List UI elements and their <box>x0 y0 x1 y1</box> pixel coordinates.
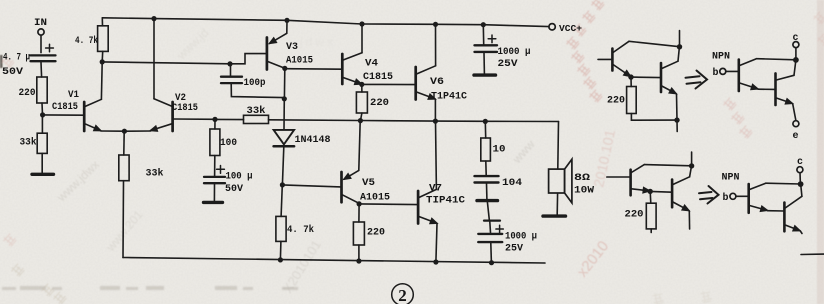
wire C3 to ground <box>213 184 215 201</box>
scan edge artifact left <box>0 55 3 68</box>
capacitor C6 1000u 25V bottom <box>478 221 503 263</box>
composite BR: wire b to base <box>736 195 749 197</box>
watermark chinese top right <box>565 0 605 103</box>
composite BL: wire emitter to power base <box>650 190 672 193</box>
composite TR: wire power emitter to e <box>793 104 796 121</box>
node output to zobel <box>483 119 488 124</box>
composite BR: wire node to c terminal <box>799 173 801 184</box>
wire node to R9 <box>281 185 282 217</box>
ground bar speaker <box>543 214 566 217</box>
composite TL: power transistor <box>661 61 678 93</box>
composite TL: driver transistor <box>598 41 630 76</box>
svg-text:33k: 33k <box>247 105 266 117</box>
composite TR: c terminal <box>793 42 799 48</box>
wire ground to C6 <box>487 202 489 220</box>
capacitor C2 100p <box>221 64 284 98</box>
wire V5 emitter up to output <box>359 121 360 171</box>
svg-text:NPN: NPN <box>722 173 740 184</box>
composite BR: driver transistor <box>749 183 768 213</box>
svg-text:220: 220 <box>367 228 385 239</box>
composite TL: stub below emitter node <box>676 120 678 131</box>
transistor V2 C1815 <box>151 99 173 131</box>
node: rail junction V4 collector <box>359 21 364 26</box>
capacitor C5 1000u 25V top <box>475 25 498 74</box>
svg-text:b: b <box>713 67 719 79</box>
wire V3C to V4 base <box>285 68 342 71</box>
wire tap to R6 <box>215 118 244 120</box>
svg-text:4. 7k: 4. 7k <box>75 35 98 47</box>
wire R5 to C3 <box>214 156 216 177</box>
transistor V5 A1015 <box>342 170 359 203</box>
svg-text:4. 7k: 4. 7k <box>287 224 314 236</box>
svg-text:c: c <box>797 157 803 168</box>
composite TR: wire b to base <box>726 70 739 72</box>
wire base V1 <box>43 114 84 116</box>
wire speaker to ground <box>556 193 558 214</box>
svg-text:100p: 100p <box>244 78 266 89</box>
svg-text:220: 220 <box>19 88 36 99</box>
ground bar C5 <box>474 73 496 76</box>
svg-text:220: 220 <box>625 210 644 221</box>
wire V3C down bias chain <box>283 68 285 98</box>
resistor R5 100 <box>210 129 220 156</box>
double arrow implies bottom <box>699 186 719 204</box>
wire V7 collector to output <box>435 121 438 189</box>
composite TR: node c <box>793 57 799 63</box>
capacitor C1 4.7u input <box>31 44 56 61</box>
composite BL: resistor 220 <box>646 191 656 232</box>
svg-text:NPN: NPN <box>712 52 730 63</box>
wire V2 collector from rail <box>153 19 155 99</box>
node: rail junction V3 emitter <box>284 18 289 23</box>
node 100p return <box>282 96 287 101</box>
wire C4 to ground <box>486 183 488 199</box>
wire V5C to V7 base <box>359 203 417 206</box>
wire R1 to node <box>41 103 44 115</box>
composite TL: resistor 220 <box>627 77 677 120</box>
composite BL: collector stub up <box>691 152 693 166</box>
wire top supply rail <box>102 18 549 27</box>
composite TR: b terminal <box>720 68 726 74</box>
composite BL: node driver emitter <box>648 189 653 194</box>
composite BL: power transistor <box>672 177 690 211</box>
resistor R8 220 <box>353 222 364 245</box>
wire V1 collector up <box>100 62 103 99</box>
watermark chinese mid right <box>722 96 753 139</box>
node V4 emitter <box>359 82 364 87</box>
wire R10 to C4 <box>485 161 487 175</box>
node output mid upper <box>358 118 363 123</box>
composite BR: power transistor <box>784 196 802 231</box>
wire output corner to speaker <box>557 122 560 169</box>
wire node to R2 <box>41 115 43 133</box>
node bottom rail R8 <box>356 258 361 263</box>
node bottom rail V7 <box>433 259 438 264</box>
wire node to V5 base <box>282 185 340 187</box>
node bottom rail R9 <box>278 257 283 262</box>
transistor V4 C1815 <box>342 53 362 84</box>
composite TL: top collector wire <box>629 41 680 46</box>
svg-text:8Ω: 8Ω <box>574 173 590 184</box>
transistor V3 A1015 <box>267 33 287 69</box>
svg-text:V7: V7 <box>429 184 442 195</box>
resistor R3 4.7k <box>98 26 109 52</box>
svg-text:10: 10 <box>493 145 506 156</box>
composite BL: node collectors <box>689 163 694 168</box>
node V5 collector <box>357 201 362 206</box>
composite TL: node driver emitter <box>628 74 633 79</box>
wire diode to lower bias node <box>282 147 283 185</box>
svg-text:V1: V1 <box>68 90 79 101</box>
wire output to R10 <box>484 121 486 138</box>
wire R9 to bottom rail <box>279 241 282 260</box>
svg-text:C1815: C1815 <box>363 72 393 83</box>
watermark chinese bottom left <box>0 54 67 304</box>
resistor R10 10 <box>481 138 491 161</box>
node lower bias <box>280 182 285 187</box>
composite TL: wire emitter to power base <box>631 76 661 79</box>
wire V2 base to feedback <box>173 118 215 120</box>
wire node to diode <box>283 99 285 130</box>
svg-text:220: 220 <box>607 96 625 107</box>
wire tap to R5 <box>214 119 216 129</box>
svg-text:25V: 25V <box>498 59 518 70</box>
terminal VCC+ <box>549 24 555 30</box>
composite TR: wire emitter to power base <box>758 88 775 90</box>
wire V4 collector to rail <box>361 24 363 53</box>
terminal IN <box>38 29 44 35</box>
ground bar C3 <box>204 201 223 204</box>
composite TR: power transistor <box>776 73 795 105</box>
composite TL: node emitter bottom <box>674 117 679 122</box>
svg-text:10W: 10W <box>574 186 594 197</box>
composite BR: wire emitter to power base <box>768 210 785 212</box>
wire V4E to R7 <box>361 84 363 92</box>
transistor V7 TIP41C <box>418 189 437 223</box>
composite TL: wire power emitter down <box>676 94 679 120</box>
composite BL: wire power emitter stub <box>688 211 690 229</box>
stray margin line bottom right <box>801 253 824 255</box>
wire IN to C1 <box>40 35 42 52</box>
composite BR: b terminal <box>730 193 736 199</box>
svg-text:TIP41C: TIP41C <box>426 196 465 207</box>
wire R2 to ground <box>41 153 43 172</box>
svg-text:A1015: A1015 <box>286 56 313 67</box>
svg-text:220: 220 <box>370 98 389 109</box>
ground bar C4 <box>477 199 498 202</box>
node V1 base <box>40 112 45 117</box>
ground bar input <box>32 173 54 176</box>
transistor V1 C1815 <box>84 99 101 131</box>
wire R4 to bottom rail <box>122 181 125 258</box>
composite BR: wire power collector to node <box>801 184 802 196</box>
svg-text:V3: V3 <box>286 42 298 53</box>
capacitor C4 104 <box>475 176 499 182</box>
svg-text:b: b <box>723 192 729 204</box>
watermark chinese bottom right row <box>652 290 712 304</box>
capacitor C3 100u 50V <box>204 166 225 184</box>
resistor R1 220 <box>37 77 47 103</box>
composite TR: e terminal <box>793 121 799 127</box>
svg-text:4. 7 μ: 4. 7 μ <box>3 53 30 64</box>
svg-text:50V: 50V <box>225 184 243 195</box>
svg-text:V4: V4 <box>365 59 378 70</box>
double arrow implies top <box>686 71 708 89</box>
wire V3 emitter to rail <box>286 20 288 33</box>
wire V6 collector to rail <box>435 24 437 66</box>
wire bottom negative rail <box>123 258 545 264</box>
resistor R7 220 <box>356 92 367 113</box>
wire V2 emitter to tail <box>124 130 150 132</box>
wire R3 to V1 collector node <box>101 51 104 61</box>
composite BL: wire power collector up <box>690 166 692 177</box>
svg-text:100 μ: 100 μ <box>226 172 253 183</box>
svg-text:C1815: C1815 <box>52 102 78 113</box>
resistor R9 4.7k <box>276 216 286 241</box>
wire V5C to R8 <box>358 204 360 222</box>
svg-text:c: c <box>793 33 799 44</box>
composite TL: collector stub up <box>679 31 681 47</box>
wire V7 emitter to bottom rail <box>436 224 437 262</box>
node: rail junction V6 collector <box>433 22 438 27</box>
node bottom rail C6 <box>489 260 494 265</box>
wire step to V3 base <box>230 54 266 64</box>
wire C1 to R1 <box>40 62 43 77</box>
composite BR: node c <box>798 181 804 187</box>
composite BL: driver transistor <box>607 165 650 196</box>
composite TL: node collectors <box>677 44 682 49</box>
svg-text:1000 μ: 1000 μ <box>505 232 537 243</box>
node V1 collector <box>100 59 105 64</box>
wire feedback to output node <box>269 120 559 122</box>
composite BR: power emitter stub <box>800 231 802 234</box>
wire tail to R4 <box>123 131 125 155</box>
wire R8 to bottom rail <box>358 245 360 261</box>
resistor R4 33k tail <box>119 155 129 181</box>
node 100p tap <box>227 61 232 66</box>
figure number 2 <box>392 284 414 304</box>
composite TR: driver transistor <box>739 59 758 91</box>
svg-text:C1815: C1815 <box>172 103 198 114</box>
node: rail junction C5 top <box>481 22 486 27</box>
resistor R6 33k feedback <box>244 115 269 123</box>
node V3 collector <box>282 66 287 71</box>
node: rail junction V2 collector <box>151 16 156 21</box>
composite TR: wire collector to node <box>756 59 796 60</box>
node midpoint bias tap <box>212 117 217 122</box>
svg-text:jdwx: jdwx <box>299 35 336 49</box>
svg-text:e: e <box>793 131 799 142</box>
svg-text:A1015: A1015 <box>360 193 390 204</box>
faint printed row bottom left <box>2 286 298 290</box>
scan edge strip right <box>817 0 824 304</box>
node emitter tail <box>122 129 127 134</box>
svg-text:33k: 33k <box>146 168 164 180</box>
transistor V6 T1P41C <box>416 66 436 100</box>
composite TL: wire power collector up <box>678 47 679 61</box>
svg-text:33k: 33k <box>20 137 37 149</box>
composite BL: top collector wire <box>644 165 691 166</box>
svg-text:50V: 50V <box>2 67 23 78</box>
svg-text:100: 100 <box>220 138 237 149</box>
svg-text:1000 μ: 1000 μ <box>498 47 531 58</box>
composite TR: wire node to c terminal <box>795 48 797 60</box>
svg-text:V6: V6 <box>430 77 444 88</box>
svg-text:IN: IN <box>34 18 47 29</box>
svg-text:104: 104 <box>502 178 522 189</box>
composite BR: wire collector to node <box>766 182 801 185</box>
resistor R2 33k <box>37 133 47 153</box>
wire V6 emitter to output <box>434 99 436 121</box>
composite BR: c terminal <box>797 167 803 173</box>
wire V1C to V3 base <box>102 62 230 64</box>
wire V4E to V6 base <box>362 83 415 85</box>
svg-text:T1P41C: T1P41C <box>431 92 467 103</box>
svg-text:V5: V5 <box>362 178 375 189</box>
wire V1 emitter to tail node <box>101 130 124 132</box>
svg-text:25V: 25V <box>505 244 523 255</box>
wire rail to R3 <box>101 18 103 26</box>
svg-text:VCC+: VCC+ <box>559 23 582 34</box>
svg-text:2: 2 <box>398 286 407 304</box>
node output at V6/V7 <box>433 119 438 124</box>
wire R7 to output node <box>361 113 362 120</box>
composite TR: wire power collector to node <box>794 60 796 75</box>
diode D1 1N4148 <box>274 130 295 146</box>
svg-text:1N4148: 1N4148 <box>295 135 331 146</box>
speaker LS 8ohm <box>549 159 572 203</box>
